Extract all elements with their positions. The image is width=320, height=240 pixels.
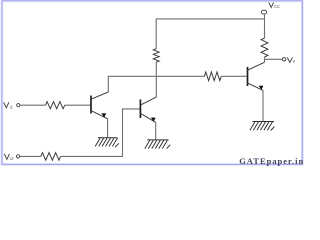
resistor R1 xyxy=(46,102,65,109)
svg-text:i1: i1 xyxy=(10,104,14,109)
label VCC xyxy=(269,2,274,7)
resistor R2 xyxy=(41,153,61,161)
label Vi1 xyxy=(4,102,9,108)
input terminal Vi1 xyxy=(17,104,20,107)
ground G1 xyxy=(95,138,119,148)
wire Vi1 to R1 xyxy=(20,104,45,106)
wire Q1 collector to node row xyxy=(108,76,204,92)
svg-text:GATEpaper.in: GATEpaper.in xyxy=(239,156,303,166)
wire R1 to Q1 base xyxy=(65,104,91,106)
wire R4 to Vo node xyxy=(265,57,282,62)
label Vi2 xyxy=(4,154,9,160)
svg-text:CC: CC xyxy=(274,4,280,9)
input terminal Vi2 xyxy=(16,155,19,158)
wire Q3 emitter to ground xyxy=(262,90,264,121)
wire R3 to Q2 collector xyxy=(155,62,157,97)
wire R2 to Q2 base xyxy=(61,109,140,156)
ground G3 xyxy=(250,122,275,131)
svg-text:i2: i2 xyxy=(10,156,14,161)
ground G2 xyxy=(145,140,170,149)
wire R5 to Q3 base xyxy=(221,75,247,77)
wire Q1 emitter to ground xyxy=(107,119,109,138)
transistor Q1 xyxy=(91,92,108,119)
wire VCC to top rail and to R3 xyxy=(156,14,264,48)
node Vo terminal xyxy=(282,58,286,61)
power VCC terminal xyxy=(261,10,267,14)
transistor Q3 xyxy=(247,62,264,90)
transistor Q2 xyxy=(140,97,156,122)
resistor R3 xyxy=(153,49,159,63)
resistor R5 xyxy=(204,72,221,81)
wire Q2 emitter to ground xyxy=(155,122,157,140)
resistor R4 xyxy=(261,38,268,57)
label Vo xyxy=(287,57,292,62)
wire Vi2 to R2 xyxy=(20,155,41,157)
